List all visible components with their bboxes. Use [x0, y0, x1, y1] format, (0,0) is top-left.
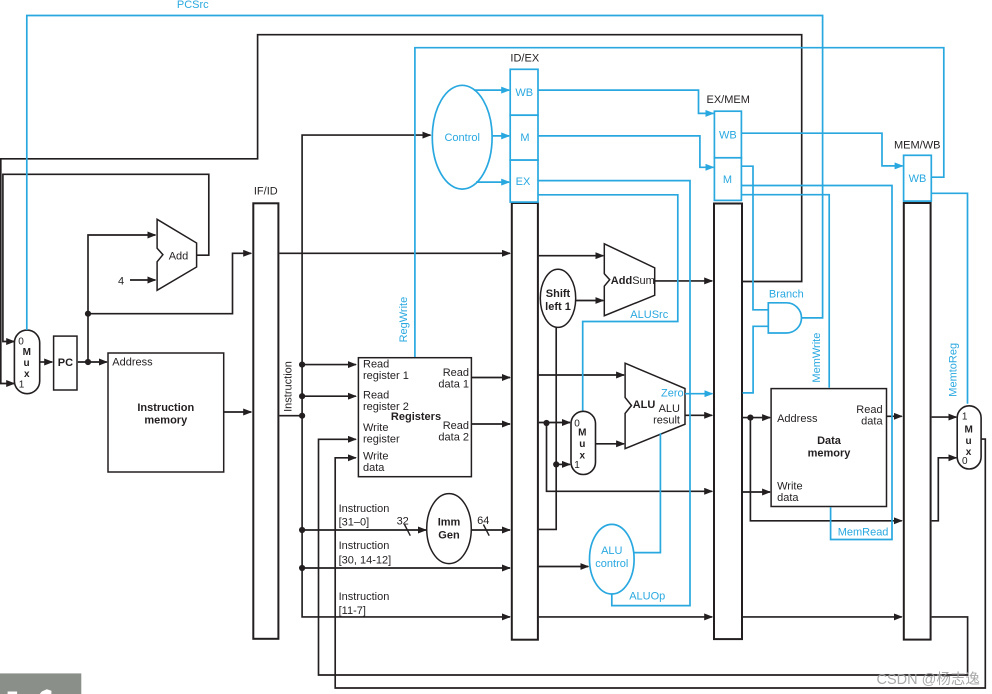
wire Read data out of MEM/WB to WB mux input 1 — [932, 416, 957, 418]
adder AddSum (branch target) — [604, 244, 654, 316]
svg-text:WB: WB — [909, 173, 927, 185]
wire MemtoReg from MEM/WB WB to mux select — [931, 193, 967, 403]
wire instruction [30,14-12] funct row to ID/EX — [302, 567, 510, 569]
wire PC row IF/ID to ID/EX — [279, 252, 510, 254]
wire instruction bus out of IF/ID — [279, 415, 302, 417]
svg-text:0: 0 — [962, 456, 968, 467]
wire ALU result out of EX/MEM to Data memory Address — [743, 417, 771, 419]
junction immediate to mux tee — [553, 461, 559, 467]
svg-text:WB: WB — [719, 129, 737, 141]
wire PC row ID/EX to AddSum — [539, 255, 604, 257]
control field box WB of ID/EX — [510, 69, 538, 115]
mux PC-source (0/1) — [14, 330, 39, 394]
svg-text:Control: Control — [444, 132, 479, 144]
wire write-register number feedback to Registers Write register — [319, 439, 968, 675]
wire AddSum result to EX/MEM — [655, 280, 713, 282]
adder Add (PC+4) — [157, 219, 197, 290]
control field box WB of EX/MEM — [714, 111, 741, 158]
mux MemtoReg (1/0) — [957, 406, 981, 469]
svg-text:MEM/WB: MEM/WB — [894, 140, 940, 152]
mux ALUSrc (0/1) — [571, 411, 596, 474]
svg-text:ImmGen: ImmGen — [438, 517, 461, 542]
AND gate Branch — [768, 303, 801, 333]
svg-text:Zero: Zero — [661, 388, 684, 400]
control field box M of EX/MEM — [714, 158, 741, 201]
wire Control to ID/EX M — [492, 135, 510, 137]
wire ALUSrc from ID/EX EX to mux select — [538, 195, 678, 411]
bus-width slash 64 — [483, 525, 489, 536]
wire ALUOp from ID/EX EX to ALU control — [538, 181, 690, 606]
wire instruction [31-0] to Imm Gen — [302, 529, 426, 531]
junction instruction [31-0] — [299, 527, 305, 533]
junction instruction to read register 1 — [299, 362, 305, 368]
wire PC+4 from Add to PC mux input 0 — [3, 174, 209, 341]
svg-text:PC: PC — [58, 357, 73, 369]
wire instruction to Read register 1 — [302, 364, 356, 366]
imm gen ellipse — [427, 494, 472, 564]
svg-text:EX/MEM: EX/MEM — [706, 94, 749, 106]
wire ALUSrc mux output to ALU — [595, 443, 624, 445]
svg-text:Add: Add — [169, 251, 189, 263]
bus-width slash 32 — [405, 525, 411, 536]
svg-text:Address: Address — [777, 413, 818, 425]
wire M signals ID/EX to EX/MEM — [538, 136, 713, 167]
wire write-back data from WB mux to Registers Write data — [335, 439, 985, 688]
pipeline register MEM/WB — [904, 203, 931, 640]
wire branch-target feedback EX/MEM to PC mux input 1 — [1, 35, 802, 384]
wire immediate row out of ID/EX — [539, 327, 557, 529]
wire PC to IF/ID — [88, 253, 251, 313]
svg-text:RegWrite: RegWrite — [398, 297, 410, 343]
wire Read data 1 row to ALU — [539, 374, 624, 376]
shift left 1 ellipse — [540, 269, 575, 327]
svg-text:Address: Address — [112, 357, 153, 369]
wire write-register number row EX/MEM to MEM/WB — [743, 616, 902, 618]
svg-text:MemWrite: MemWrite — [811, 333, 823, 383]
wire ALU result bypass down to MEM/WB — [750, 418, 901, 521]
register file Registers — [358, 358, 471, 477]
svg-text:1: 1 — [962, 412, 968, 423]
junction ALU result tee — [747, 415, 753, 421]
wire write data EX/MEM to Data memory — [743, 491, 771, 493]
ALU — [625, 363, 685, 448]
svg-text:EX: EX — [516, 176, 531, 188]
svg-text:1: 1 — [574, 460, 580, 471]
svg-text:CSDN @杨志逸: CSDN @杨志逸 — [877, 671, 980, 688]
data memory — [771, 389, 886, 507]
svg-text:MemtoReg: MemtoReg — [948, 343, 960, 397]
junction instruction [30,14-12] — [299, 565, 305, 571]
svg-text:PCSrc: PCSrc — [177, 0, 209, 11]
instruction memory — [108, 353, 224, 472]
wire constant 4 into Add — [130, 279, 155, 281]
svg-text:IF/ID: IF/ID — [254, 186, 278, 198]
wire ALU control to ALU — [634, 433, 660, 552]
svg-text:ALU: ALU — [633, 399, 656, 411]
svg-text:AddSum: AddSum — [611, 275, 655, 287]
wire Read data 2 row to ALUSrc mux input 0 — [539, 422, 570, 424]
svg-text:Readdata 1: Readdata 1 — [438, 367, 469, 391]
svg-text:Shiftleft 1: Shiftleft 1 — [545, 288, 571, 313]
svg-text:M: M — [723, 174, 732, 186]
svg-text:32: 32 — [397, 516, 409, 528]
wire MemRead EX/MEM M to Data memory — [741, 186, 892, 540]
pipeline register EX/MEM — [714, 204, 742, 640]
wire Imm Gen output to ID/EX — [471, 529, 510, 531]
wire Zero flag ALU to EX/MEM — [685, 393, 712, 395]
wire Branch signal EX/MEM M to AND gate — [741, 166, 767, 310]
wire PC to instruction memory Address — [78, 361, 107, 363]
pipeline register IF/ID — [253, 203, 278, 639]
svg-text:ALUSrc: ALUSrc — [630, 309, 668, 321]
wire Control to ID/EX WB — [474, 89, 509, 91]
ALU control ellipse — [590, 524, 635, 594]
svg-text:Instructionmemory: Instructionmemory — [137, 402, 194, 427]
wire PCSrc from Branch AND gate to PC mux select — [27, 16, 823, 331]
svg-text:Registers: Registers — [391, 411, 441, 423]
junction instruction bus tee — [299, 413, 305, 419]
pipeline register ID/EX — [512, 203, 538, 640]
wire write-register number row ID/EX to EX/MEM — [539, 616, 713, 618]
junction instruction to read register 2 — [299, 393, 305, 399]
register PC — [54, 336, 77, 390]
svg-text:MemRead: MemRead — [838, 527, 889, 539]
wire PC mux output to PC — [40, 361, 52, 363]
svg-text:ID/EX: ID/EX — [510, 53, 539, 65]
wire ALU result out of MEM/WB to WB mux input 0 — [932, 458, 957, 521]
wire immediate to ALUSrc mux input 1 — [556, 463, 570, 465]
wire funct row ID/EX to ALU control — [539, 566, 589, 568]
svg-text:M: M — [520, 132, 529, 144]
decorative corner icon — [0, 673, 81, 694]
junction PC fan-out — [85, 311, 91, 317]
svg-text:1: 1 — [19, 380, 25, 391]
svg-text:Readdata 2: Readdata 2 — [438, 420, 469, 444]
control field box WB of MEM/WB — [904, 155, 932, 201]
svg-text:Instruction: Instruction — [283, 361, 295, 412]
control field box EX of ID/EX — [510, 160, 538, 202]
wire Read data 2 down to EX/MEM write-data row — [547, 423, 713, 491]
svg-text:Readdata: Readdata — [856, 404, 883, 428]
svg-text:Branch: Branch — [769, 289, 804, 301]
wire Read data 1 to ID/EX — [471, 377, 510, 379]
svg-text:4: 4 — [118, 276, 124, 288]
wire Read data 2 to ID/EX — [471, 423, 510, 425]
wire instruction vertical trunk — [302, 365, 510, 617]
wire WB signals EX/MEM to MEM/WB — [741, 133, 902, 166]
wire shift left 1 to AddSum — [576, 300, 604, 302]
control field box M of ID/EX — [510, 115, 538, 160]
wire Data memory Read data to MEM/WB — [887, 415, 902, 417]
wire PC up to Add top input — [88, 235, 155, 362]
wire MemWrite EX/MEM M to Data memory — [741, 195, 829, 388]
junction read data 2 tee — [543, 420, 549, 426]
control unit ellipse — [432, 85, 492, 189]
wire Zero flag EX/MEM to AND gate — [743, 326, 768, 393]
svg-text:0: 0 — [18, 337, 24, 348]
wire Control to ID/EX EX — [476, 181, 509, 183]
svg-text:ALUOp: ALUOp — [629, 591, 665, 603]
wire WB signals ID/EX to EX/MEM — [538, 90, 713, 113]
junction PC output — [85, 359, 91, 365]
wire instruction to Read register 2 — [302, 395, 356, 397]
wire instruction memory to IF/ID — [224, 411, 252, 413]
wire ALU result to EX/MEM — [685, 414, 712, 416]
wire RegWrite from MEM/WB WB to Registers — [415, 48, 944, 357]
svg-text:WB: WB — [515, 87, 533, 99]
wire instruction to Control — [302, 135, 430, 365]
